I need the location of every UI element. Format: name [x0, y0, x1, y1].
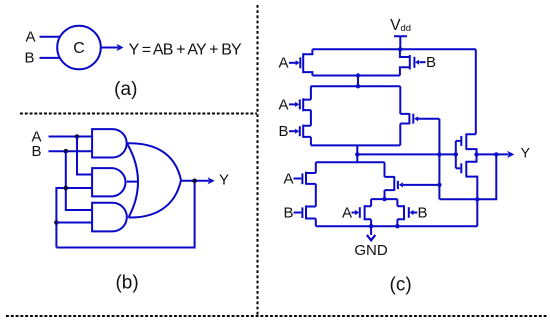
wire small pair top rail: [371, 198, 397, 200]
wire middle rect left edge between transistors: [310, 110, 312, 126]
wire B to AND gate G1 input 2: [49, 150, 93, 152]
wire A to AND gate G1 input 1: [49, 136, 93, 138]
transistor Q3 PMOS gate A (middle left upper): [278, 96, 310, 113]
wire NMOS section top rail: [316, 161, 385, 163]
wire feedback bottom rail from output: [56, 181, 194, 248]
AND gate G1: [92, 129, 127, 157]
junction GND stem: [369, 224, 373, 228]
junction on B wire: [64, 149, 69, 154]
wire from B junction down to G3 input 1: [66, 151, 92, 210]
wire Y feedback down and left: [439, 154, 496, 199]
svg-text:B: B: [31, 143, 41, 160]
wire n1 to middle rect top rail: [357, 76, 359, 87]
C-element U1 circle symbol: [57, 26, 101, 70]
svg-text:B: B: [278, 123, 288, 140]
power Vdd terminal bar and stem: [394, 36, 407, 49]
wire center connector n2: [356, 145, 358, 162]
svg-text:A: A: [278, 96, 288, 113]
svg-text:(b): (b): [115, 272, 138, 293]
wire small pair left edge lower: [370, 219, 372, 226]
ground symbol stem and arrow: [370, 226, 372, 235]
svg-text:A: A: [25, 29, 35, 46]
wire middle rect left edge lower: [310, 137, 312, 146]
junction feedback crossing inverter input: [437, 152, 441, 156]
wire stub G2 output to OR gate: [127, 181, 139, 183]
junction middle rect top: [356, 84, 360, 88]
transistor Q6 NMOS gate A (lower left upper): [283, 171, 315, 188]
wire NMOS rail right corner down: [384, 162, 386, 177]
svg-text:Y: Y: [219, 172, 229, 189]
svg-text:C: C: [73, 40, 85, 57]
wire middle rect right edge upper: [399, 86, 401, 114]
transistor Q12 NMOS (output inverter pull-down): [456, 154, 478, 226]
wire Y output of OR gate with arrowhead: [181, 180, 209, 182]
wire GND rail: [316, 225, 478, 227]
wire feedback branch to G3 input 2: [56, 222, 92, 224]
dashed vertical separator: [257, 5, 259, 315]
svg-text:(a): (a): [114, 79, 137, 100]
junction n1: [356, 73, 360, 77]
transistor Q10 NMOS gate B (small pair right): [397, 199, 427, 226]
wire B to C-element: [40, 57, 62, 59]
svg-text:B: B: [283, 205, 293, 222]
svg-text:A: A: [283, 171, 293, 188]
transistor Q5 PMOS gate Y (middle right): [400, 113, 439, 145]
wire A to C-element: [40, 36, 62, 38]
junction feedback to G3 input 2: [54, 220, 59, 225]
svg-text:GND: GND: [354, 242, 388, 259]
transistor Q4 PMOS gate B (middle left lower): [278, 123, 310, 140]
AND gate G2: [92, 168, 125, 196]
transistor Q8 NMOS gate Y (right of NMOS section): [385, 176, 440, 199]
wire Y output of C-element with arrowhead: [101, 47, 118, 49]
wire feedback to G2 input 2: [56, 188, 92, 248]
junction inverter input: [454, 152, 458, 156]
junction Y feedback tap: [494, 152, 498, 156]
wire NMOS section left edge upper: [315, 162, 317, 173]
junction n2 tap: [355, 152, 359, 156]
transistor Q1 PMOS gate A (top pair left): [278, 49, 312, 75]
wire feedback vertical from Q5 gate down: [438, 119, 440, 200]
junction inverter output node: [474, 152, 478, 156]
wire from A junction down to G2 input 1: [77, 137, 92, 175]
wire middle rect bottom rail: [311, 144, 400, 146]
junction Y feedback node: [192, 179, 197, 184]
junction small pair right leg on GND rail: [395, 224, 399, 228]
svg-text:Y = AB + AY + BY: Y = AB + AY + BY: [129, 41, 242, 58]
OR gate G4: [127, 143, 181, 217]
wire middle rect left edge upper: [310, 86, 312, 99]
junction on A wire: [75, 134, 80, 139]
transistor Q9 NMOS gate A (small pair left): [342, 205, 371, 222]
junction Q8 drain on small pair rail: [382, 197, 386, 201]
wire n2 to inverter input: [357, 153, 456, 155]
wire NMOS section left edge lower: [315, 219, 317, 227]
dashed bottom border: [6, 315, 547, 317]
transistor Q2 PMOS gate B (top pair right): [400, 49, 436, 75]
svg-text:(c): (c): [390, 274, 412, 295]
junction feedback crossing inverter NMOS leg: [475, 197, 479, 201]
AND gate G3: [92, 203, 127, 232]
svg-text:Vdd: Vdd: [390, 17, 411, 34]
wire Vdd rail: [312, 48, 475, 50]
svg-text:A: A: [342, 205, 352, 222]
wire Y output with arrowhead: [477, 153, 509, 155]
svg-text:B: B: [417, 205, 427, 222]
junction Vdd stem on rail: [398, 47, 402, 51]
wire inverter gate vertical: [455, 141, 457, 168]
wire node n1 rail (bottom of top pair): [312, 75, 400, 77]
wire middle rect top rail: [311, 85, 400, 87]
transistor Q11 PMOS (output inverter pull-up): [456, 133, 477, 154]
wire small pair left edge upper: [370, 199, 372, 206]
junction feedback crossing: [64, 186, 69, 191]
svg-text:B: B: [426, 54, 436, 71]
junction Q8 gate on feedback vertical: [437, 183, 441, 187]
transistor Q7 NMOS gate B (lower left lower): [283, 205, 315, 222]
wire Vdd rail right drop to inverter PMOS: [475, 49, 477, 134]
wire NMOS section left edge middle: [315, 184, 317, 207]
svg-text:B: B: [24, 50, 34, 67]
svg-text:A: A: [278, 55, 288, 72]
svg-text:Y: Y: [521, 145, 531, 161]
dashed separator between (a) and (b): [20, 113, 257, 115]
